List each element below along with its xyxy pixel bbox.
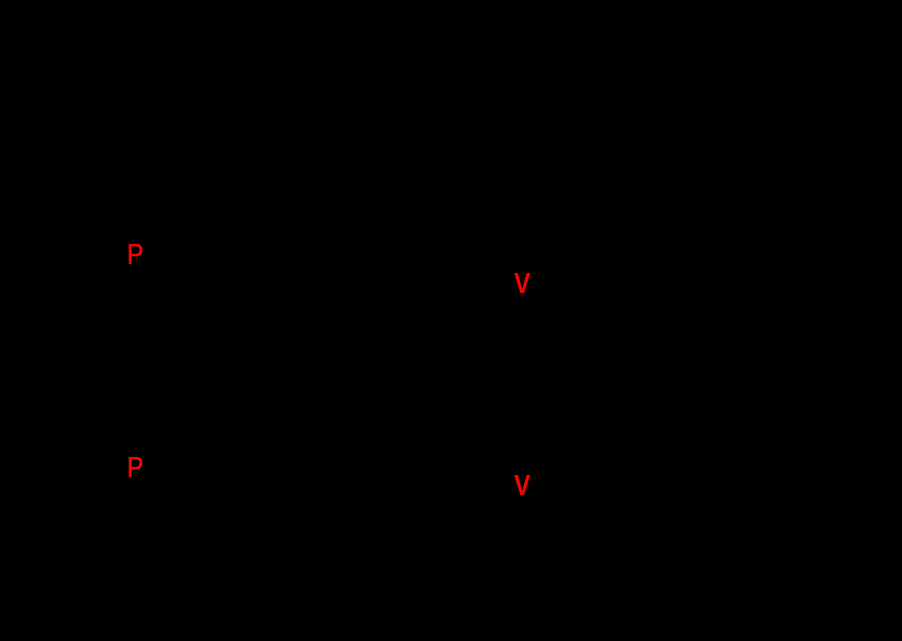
atom label P2 (phosphorus, lower left) <box>127 454 143 483</box>
atom label V2 (vanadium, lower middle) <box>514 472 530 501</box>
atom label P1 (phosphorus, upper left) <box>127 241 143 270</box>
atom label V1 (vanadium, upper middle) <box>514 270 530 299</box>
